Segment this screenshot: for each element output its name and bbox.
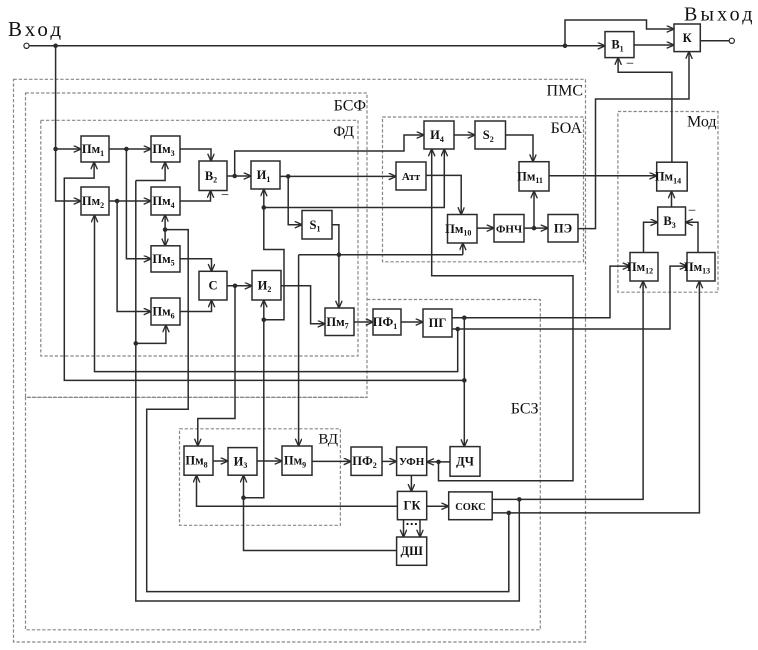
wire Пм13 to В3 right xyxy=(686,222,699,252)
wire Пм9 to ПФ2 xyxy=(312,460,351,462)
wire С junction down to Пм8 top xyxy=(198,286,235,446)
wire С to И2 xyxy=(227,285,252,287)
wire ПГ lower output to Пм13 xyxy=(452,266,687,329)
блок Пм6 xyxy=(151,298,180,325)
wire Пм1 to Пм3 xyxy=(109,148,151,150)
wire net-A down to СОКС output xyxy=(136,343,520,601)
блок И1 xyxy=(251,161,280,189)
svg-text:−: − xyxy=(221,188,229,204)
svg-text:Вход: Вход xyxy=(8,17,64,41)
svg-text:УФН: УФН xyxy=(399,456,425,468)
wire bypass Вход to К upper input xyxy=(565,20,674,46)
wire ГК to ДШ line 2 xyxy=(419,520,421,537)
wire И1 junction down to S1 xyxy=(288,176,302,224)
wire К output to terminal xyxy=(700,40,729,42)
wire Пм4-Пм5 bidirectional link xyxy=(164,215,166,246)
wire net-A to Пм3 bottom xyxy=(136,162,165,181)
wire Пм6 to С bottom xyxy=(180,300,212,312)
dashed block boundary БСФ xyxy=(26,93,368,397)
wire В2 to И1 xyxy=(227,175,251,177)
svg-text:С: С xyxy=(208,279,217,293)
wire ДШ output to И3 junction xyxy=(244,498,397,551)
блок ПЭ xyxy=(548,215,578,243)
wire И3 bottom feed arrow xyxy=(243,475,245,498)
блок Пм1 xyxy=(81,136,109,162)
svg-text:ПГ: ПГ xyxy=(429,316,447,330)
wire ПГ net down to ДЧ top xyxy=(463,318,465,447)
svg-text:ДЧ: ДЧ xyxy=(456,454,474,468)
svg-text:ФД: ФД xyxy=(333,124,354,140)
svg-text:ГК: ГК xyxy=(404,499,421,513)
wire ПФ2 to УФН xyxy=(382,460,397,462)
wire Пм4 to В2 bottom xyxy=(180,191,211,202)
svg-text:БСЗ: БСЗ xyxy=(511,401,539,418)
wire И2 bottom feed arrow xyxy=(263,300,265,320)
блок В3 xyxy=(658,207,686,235)
wire Пм2 to Пм4 xyxy=(109,200,151,202)
svg-text:БСФ: БСФ xyxy=(334,98,366,115)
svg-text:Мод: Мод xyxy=(687,114,717,131)
svg-text:Выход: Выход xyxy=(684,3,756,25)
блок И3 xyxy=(228,448,257,476)
блок ДЧ xyxy=(450,447,480,477)
блок В1 xyxy=(605,32,634,58)
блок ФНЧ xyxy=(494,215,524,243)
svg-text:ФНЧ: ФНЧ xyxy=(496,223,522,235)
блок В2 xyxy=(199,161,227,191)
dashed block boundary БСЗ xyxy=(26,300,541,630)
wire И3 to Пм9 xyxy=(257,460,282,462)
wire ПЭ output up to К bottom xyxy=(578,52,689,229)
блок Пм4 xyxy=(151,187,180,215)
блок Пм3 xyxy=(151,136,180,162)
блок Атт xyxy=(396,162,426,190)
wire И2 output to Пм7 xyxy=(281,286,325,324)
wire Пм5 to С top xyxy=(180,259,212,272)
svg-text:ПЭ: ПЭ xyxy=(554,221,572,235)
wire net-A vertical xyxy=(135,181,137,344)
блок ПФ1 xyxy=(373,309,401,335)
блок ДШ xyxy=(397,537,427,565)
блок Пм8 xyxy=(184,446,213,475)
input terminal circle xyxy=(24,43,29,48)
блок И4 xyxy=(424,121,454,149)
wire И1 output to Атт xyxy=(280,175,396,177)
wire Пм11 to Пм14 xyxy=(549,175,657,177)
блок Пм12 xyxy=(627,253,658,282)
svg-text:ВД: ВД xyxy=(318,432,338,448)
wire ГК to Пм8 bottom xyxy=(197,475,398,506)
wire Пм12 to В3 left xyxy=(644,222,658,252)
svg-text:ДШ: ДШ xyxy=(400,544,423,558)
wire Пм1 junction down to Пм5 xyxy=(126,149,151,259)
wire СОКС upper output to Пм12 bottom xyxy=(492,281,643,499)
wire Вход junction branch to Пм1 xyxy=(56,148,81,150)
блок И2 xyxy=(252,271,281,301)
wire ПГ net to Пм1 bottom xyxy=(64,162,464,380)
блок С xyxy=(199,271,227,300)
блок УФН xyxy=(397,447,427,475)
wire ГК to ДШ line 1 xyxy=(403,520,405,537)
svg-text:−: − xyxy=(688,203,696,219)
блок Пм5 xyxy=(151,246,180,272)
dashed block boundary Мод xyxy=(618,112,718,293)
wire Вход branch down to Пм2 xyxy=(56,46,81,201)
блок Пм7 xyxy=(325,308,354,336)
wire ПГ upper output to Пм12 xyxy=(452,266,630,318)
wire net-A branch to Пм6 bottom xyxy=(136,325,166,343)
wire И net down to И3 junction xyxy=(244,320,264,498)
wire Вход input line to В1 xyxy=(30,45,606,47)
wire ПГ lower net to Пм2 bottom xyxy=(95,215,458,372)
dashed block boundary ВД xyxy=(180,429,341,526)
wire И1 net across to И4 bottom xyxy=(264,149,445,208)
wire Пм10 to ФНЧ xyxy=(477,227,494,229)
блок Пм10 xyxy=(445,215,477,244)
dashed block boundary ПМС xyxy=(14,79,586,642)
блок СОКС xyxy=(449,492,493,520)
блок S2 xyxy=(475,121,506,149)
wire И1 net bypass around И2 xyxy=(264,208,284,320)
wire ФНЧ junction up to Пм11 bottom xyxy=(533,191,535,228)
svg-text:−: − xyxy=(626,56,634,72)
wire В1 output to К xyxy=(634,44,674,46)
svg-text:К: К xyxy=(683,31,692,45)
wire ПФ1 to ПГ xyxy=(401,321,423,323)
wire Пм8 to И3 xyxy=(213,460,228,462)
wire В3 up to Пм14 bottom xyxy=(671,191,673,207)
wire В2 junction up to И4 left xyxy=(235,135,424,176)
svg-text:Атт: Атт xyxy=(402,171,421,183)
svg-text:СОКС: СОКС xyxy=(455,502,485,513)
wire Пм3 to В2 top xyxy=(180,149,211,161)
wire S1 output down to net xyxy=(332,225,339,255)
блок Пм13 xyxy=(684,253,715,282)
svg-text:ПМС: ПМС xyxy=(547,83,583,100)
wire net-B from Пм4/Пм5 tee to СОКС output xyxy=(147,230,509,592)
блок Пм9 xyxy=(282,446,312,475)
блок Пм2 xyxy=(81,187,109,215)
bus dots between ГК and ДШ xyxy=(406,523,417,525)
wire S2 to Пм11 top xyxy=(506,135,534,162)
wire И4 to S2 xyxy=(454,134,475,136)
wire ГК to СОКС xyxy=(427,505,449,507)
wire S1 net up to Пм10 bottom xyxy=(462,243,464,255)
wire S1 net horizontal xyxy=(299,254,463,256)
wire ДЧ net to И4 bottom xyxy=(432,149,573,481)
wire S1 net down to Пм9 top xyxy=(298,255,300,446)
wire СОКС lower output to Пм13 bottom xyxy=(492,281,699,513)
блок ГК xyxy=(397,491,426,519)
блок ПГ xyxy=(423,309,452,337)
wire Пм14 up to В1 inverting input xyxy=(618,58,672,163)
wire Пм7 to ПФ1 xyxy=(354,321,373,323)
блок ПФ2 xyxy=(351,447,382,475)
блок К xyxy=(674,24,700,52)
wire ФНЧ to ПЭ xyxy=(524,227,548,229)
wire И1 bottom feed arrow xyxy=(263,189,265,208)
wire Пм2 junction down to Пм6 xyxy=(117,201,151,312)
блок Пм11 xyxy=(517,162,549,191)
output terminal circle xyxy=(729,38,734,43)
wire Атт to Пм10 top xyxy=(426,175,461,214)
wire S1 net down to Пм7 top xyxy=(338,255,340,308)
dashed block boundary ФД xyxy=(41,120,358,356)
svg-text:БОА: БОА xyxy=(551,120,583,137)
dashed block boundary БОА xyxy=(383,117,584,262)
блок S1 xyxy=(302,211,332,240)
wire УФН to ГК xyxy=(410,475,412,491)
блок Пм14 xyxy=(655,162,687,191)
wire ДЧ to УФН xyxy=(427,461,450,463)
